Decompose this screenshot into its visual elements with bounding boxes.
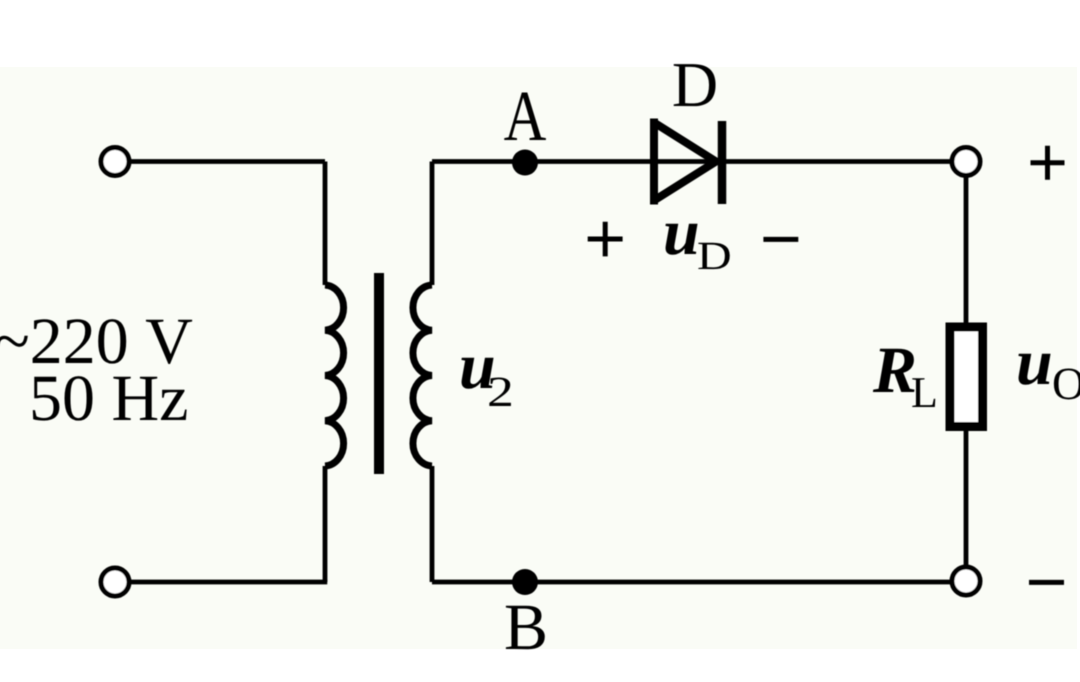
label u2 (secondary voltage) — [461, 358, 510, 406]
node B label — [506, 606, 545, 649]
transformer core — [374, 273, 384, 474]
node A label — [504, 92, 546, 140]
label − (output negative) — [1029, 580, 1064, 585]
wire: input top horizontal — [129, 159, 325, 164]
wire: bottom horizontal (secondary to output −) — [432, 580, 952, 585]
label uO (output voltage) — [1018, 354, 1080, 400]
wire: top horizontal (secondary to output +) — [432, 159, 952, 164]
label ~220 V 50 Hz (mains source) — [0, 319, 192, 421]
output terminal − — [952, 567, 980, 595]
node B junction dot — [512, 569, 538, 595]
node A junction dot — [512, 150, 538, 176]
output terminal + — [952, 148, 980, 176]
wire: input bottom horizontal — [129, 580, 327, 585]
wire: primary vertical bottom — [323, 466, 328, 582]
input terminal top — [101, 148, 129, 176]
diode D triangle (anode) — [654, 119, 716, 205]
wire: primary vertical top — [323, 162, 328, 286]
label RL (load resistor) — [873, 349, 935, 407]
transformer primary winding — [325, 285, 344, 466]
wire: output vertical top — [964, 176, 969, 323]
wire: secondary vertical bottom — [430, 466, 435, 582]
diode D cathode bar — [718, 121, 727, 204]
transformer secondary winding — [413, 285, 432, 466]
input terminal bottom — [101, 568, 129, 596]
resistor RL body — [950, 327, 983, 427]
label D (diode designator) — [674, 64, 716, 106]
label uD (diode voltage) — [665, 224, 729, 269]
label + (diode anode polarity) — [588, 222, 623, 257]
wire: secondary vertical top — [430, 162, 435, 286]
label − (diode cathode polarity) — [763, 237, 798, 242]
wire: output vertical bottom — [964, 431, 969, 568]
label + (output positive) — [1031, 146, 1065, 180]
